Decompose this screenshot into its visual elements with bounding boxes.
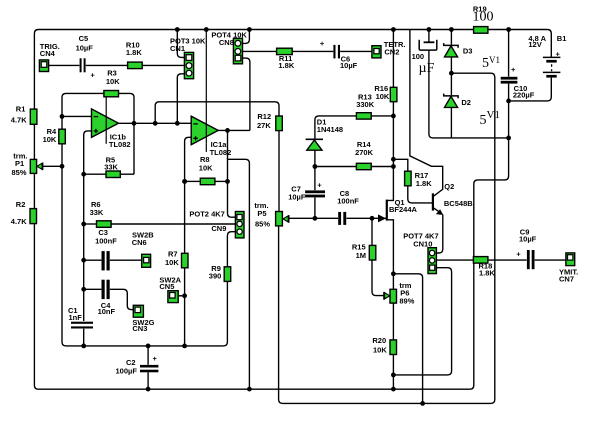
svg-text:D3: D3 bbox=[463, 47, 473, 56]
svg-text:1nF: 1nF bbox=[69, 313, 83, 322]
resistor R14 bbox=[355, 140, 374, 170]
svg-text:390: 390 bbox=[209, 271, 222, 280]
svg-text:CN9: CN9 bbox=[211, 224, 226, 233]
connector SW2G CN3 bbox=[132, 305, 154, 333]
svg-text:33K: 33K bbox=[104, 163, 118, 172]
wire R12 bottom down to P5 bbox=[278, 131, 280, 212]
junction C2 top / inner bottom wire bbox=[146, 344, 151, 349]
wire trig row CN4 to C5 bbox=[49, 64, 80, 66]
junction rail D3 bbox=[449, 27, 454, 32]
wire 100uF bottom lead to zener return line bbox=[429, 51, 509, 138]
wire battery top lead from rail bbox=[547, 30, 551, 58]
svg-text:10K: 10K bbox=[106, 77, 120, 86]
svg-text:100nF: 100nF bbox=[337, 197, 359, 206]
wire R6 left bbox=[84, 223, 97, 225]
wire rail to POT3 square pin bbox=[177, 30, 184, 58]
wire POT4 square pin down to IC1a output bbox=[243, 58, 250, 130]
resistor R15 bbox=[352, 243, 376, 261]
junction R20 / POT7 line bbox=[391, 373, 396, 378]
svg-text:+: + bbox=[317, 180, 322, 189]
battery B1 bbox=[528, 34, 566, 77]
junction C4 left bbox=[81, 287, 86, 292]
svg-text:10µF: 10µF bbox=[340, 61, 358, 70]
svg-text:CN1: CN1 bbox=[170, 44, 185, 53]
wire R13 right to column bbox=[371, 115, 393, 117]
wire Q1 source down through P6 bbox=[387, 220, 394, 289]
svg-text:CN4: CN4 bbox=[40, 49, 56, 58]
capacitor C7 10uF bbox=[288, 180, 325, 201]
zener diode D3 5V1 bbox=[444, 30, 473, 57]
wire C7 bottom to wiper line bbox=[314, 198, 316, 219]
junction R17 tap bbox=[391, 157, 396, 162]
svg-text:85%: 85% bbox=[255, 219, 270, 228]
resistor R6 bbox=[90, 200, 112, 228]
wire source branch right and down to bottom loop bbox=[393, 274, 422, 404]
wire C8 to Q1 gate bbox=[346, 217, 386, 219]
svg-text:µF: µF bbox=[419, 61, 435, 76]
svg-text:1.8K: 1.8K bbox=[278, 61, 294, 70]
svg-text:10µF: 10µF bbox=[519, 235, 537, 244]
resistor R19 bbox=[473, 5, 494, 34]
junction branch on bottom loop bbox=[420, 401, 425, 406]
wire R13 left down to D1 bbox=[315, 116, 357, 139]
svg-text:CN2: CN2 bbox=[384, 48, 399, 57]
wire P5 wiper to C8 bbox=[288, 217, 338, 219]
connector POT4 CN8 bbox=[211, 30, 247, 64]
junction R15 tap bbox=[370, 216, 375, 221]
wire R3 left loop down to inverting input bbox=[62, 93, 104, 116]
connector SW2B CN6 bbox=[132, 230, 155, 267]
svg-text:P5: P5 bbox=[257, 209, 266, 218]
svg-text:10µF: 10µF bbox=[288, 193, 306, 202]
wire R11 to C6 bbox=[292, 50, 333, 52]
svg-text:+: + bbox=[320, 39, 325, 48]
wire C2 bottom to ground rail bbox=[147, 372, 149, 389]
wire CN9 bottom pin down through R9 bbox=[227, 232, 235, 267]
connector POT7 CN10 bbox=[403, 232, 438, 274]
wire IC1b output to IC1a inverting input bbox=[119, 122, 192, 124]
capacitor 100uF electrolytic at rail bbox=[412, 30, 437, 77]
resistor R12 bbox=[257, 112, 282, 131]
svg-text:D2: D2 bbox=[461, 98, 471, 107]
svg-text:10K: 10K bbox=[376, 92, 390, 101]
svg-text:C5: C5 bbox=[79, 34, 89, 43]
junction R6 left bbox=[81, 222, 86, 227]
wire output feedback column down to R8 and POT2 square pin bbox=[228, 130, 236, 217]
junction output/R3 feedback bbox=[132, 121, 137, 126]
wire C6 to CN2 bbox=[340, 50, 372, 52]
wire R4 top lead bbox=[61, 116, 63, 129]
diode D1 1N4148 bbox=[306, 118, 343, 151]
svg-text:4.7K: 4.7K bbox=[11, 217, 27, 226]
wire C10 top lead bbox=[508, 30, 510, 77]
connector POT2 CN9 bbox=[189, 209, 244, 238]
transistor Q1 BF244A bbox=[378, 198, 418, 222]
capacitor C3 100nF bbox=[95, 228, 117, 271]
wire R10 to POT3 middle pin bbox=[142, 64, 184, 66]
svg-text:TL082: TL082 bbox=[109, 140, 131, 149]
svg-text:10K: 10K bbox=[199, 163, 213, 172]
svg-text:CN10: CN10 bbox=[413, 239, 432, 248]
junction R7 top / R8 bbox=[182, 179, 187, 184]
wire SW2A to R7 column bbox=[178, 295, 184, 297]
junction R3/R4/input bbox=[60, 114, 65, 119]
svg-text:100: 100 bbox=[473, 10, 494, 25]
wire R17 top lead from column bbox=[393, 159, 407, 171]
svg-text:+: + bbox=[90, 71, 95, 80]
wire D3 to D2 bbox=[450, 57, 452, 95]
svg-text:CN7: CN7 bbox=[559, 275, 574, 284]
resistor R8 bbox=[199, 155, 215, 185]
junction C1 bottom bbox=[81, 344, 86, 349]
wire IC1b noninverting input down to R5 bbox=[84, 131, 92, 321]
svg-text:10nF: 10nF bbox=[98, 307, 116, 316]
wire POT7 middle pin to R18 bbox=[437, 259, 474, 261]
svg-text:89%: 89% bbox=[399, 297, 414, 306]
svg-text:12V: 12V bbox=[528, 40, 541, 49]
connector SW2A CN5 bbox=[159, 276, 181, 303]
svg-text:B1: B1 bbox=[557, 34, 567, 43]
wire R20 bottom to ground rail bbox=[392, 355, 394, 390]
junction rail 100uF bbox=[427, 27, 432, 32]
wire C3 right to SW2B bbox=[110, 259, 142, 261]
junction D1/R14 bbox=[313, 164, 318, 169]
resistor R13 bbox=[356, 92, 375, 119]
resistor R3 bbox=[104, 69, 120, 97]
junction C2 / ground rail bbox=[146, 387, 151, 392]
resistor R20 bbox=[372, 336, 396, 354]
junction output/R12 loop bbox=[153, 121, 158, 126]
wire P1 wiper to R4 column bbox=[43, 165, 62, 167]
wire R4 bottom through P1 node down to inner bottom wire bbox=[62, 144, 223, 346]
svg-text:100µF: 100µF bbox=[116, 366, 138, 375]
op-amp IC1b TL082 bbox=[92, 97, 131, 149]
resistor R7 bbox=[165, 250, 188, 268]
resistor R17 bbox=[405, 171, 433, 188]
svg-text:10µF: 10µF bbox=[76, 44, 94, 53]
resistor R4 bbox=[43, 127, 66, 144]
svg-text:1.8K: 1.8K bbox=[416, 179, 432, 188]
connector POT3 CN1 bbox=[170, 37, 206, 79]
wire top supply rail with left rail and bottom ground rail bbox=[34, 30, 547, 390]
capacitor C9 10uF bbox=[516, 227, 536, 269]
svg-text:330K: 330K bbox=[356, 100, 375, 109]
wire R18 to C9 bbox=[488, 259, 527, 261]
junction rail POT4 bbox=[247, 27, 252, 32]
op-amp IC1a TL082 bbox=[191, 30, 231, 158]
wire battery bottom lead to C10 node bbox=[509, 78, 552, 101]
resistor R16 bbox=[374, 84, 397, 102]
junction output/POT3 bbox=[175, 121, 180, 126]
capacitor C1 1nF bbox=[68, 306, 93, 328]
wire rail down to Q2 collector bbox=[410, 30, 443, 197]
svg-text:10K: 10K bbox=[165, 258, 179, 267]
svg-text:POT2 4K7: POT2 4K7 bbox=[189, 209, 224, 218]
zener diode D2 5V1 bbox=[444, 94, 471, 108]
junction P1 wiper / R4 bbox=[60, 164, 65, 169]
wire D2 bottom lead to zener return line bbox=[450, 107, 452, 137]
trimmer P1 bbox=[12, 151, 43, 177]
capacitor C10 220uF bbox=[501, 65, 535, 100]
capacitor C2 100uF bbox=[116, 346, 159, 375]
wire rail down to R16 bbox=[392, 30, 394, 88]
wire loop from output node up over to R12 bbox=[155, 102, 279, 124]
wire C4 right down to SW2G bbox=[110, 289, 133, 309]
wire C4 left bbox=[84, 288, 102, 290]
wire IC1a noninverting input down to R7 bbox=[185, 137, 192, 253]
wire R5 left bbox=[84, 173, 106, 175]
connector TETR CN2 bbox=[372, 40, 406, 58]
resistor R18 bbox=[473, 257, 495, 278]
svg-text:CN3: CN3 bbox=[132, 324, 147, 333]
svg-text:+: + bbox=[153, 354, 158, 363]
svg-text:R2: R2 bbox=[16, 200, 26, 209]
svg-text:100nF: 100nF bbox=[95, 236, 117, 245]
svg-text:+: + bbox=[516, 249, 521, 258]
svg-text:BF244A: BF244A bbox=[389, 205, 418, 214]
wire POT3 bottom pin down to opamp line bbox=[177, 74, 184, 124]
resistor R2 bbox=[11, 200, 37, 226]
junction D3/D2 node bbox=[449, 71, 454, 76]
resistor R9 bbox=[209, 264, 231, 282]
junction C10 / zener return bbox=[506, 136, 511, 141]
junction branch on ground rail bbox=[247, 387, 252, 392]
svg-text:Q2: Q2 bbox=[444, 182, 454, 191]
wire P6 bottom to R20 bbox=[392, 303, 394, 340]
wire IC1a output to POT4 corner bbox=[218, 129, 250, 131]
wire R15 top lead bbox=[371, 218, 373, 245]
resistor R1 bbox=[11, 105, 37, 125]
wire C3 left bbox=[84, 259, 102, 261]
wire POT7 square pin down to R20 line bbox=[393, 268, 451, 375]
junction SW2A / R7 bbox=[182, 293, 187, 298]
svg-text:220µF: 220µF bbox=[513, 90, 535, 99]
wire R6 right to CN9 middle pin bbox=[111, 223, 235, 225]
junction rail R16 bbox=[391, 27, 396, 32]
junction R14 tap bbox=[391, 164, 396, 169]
junction Q1 source branch bbox=[391, 271, 396, 276]
svg-text:100: 100 bbox=[412, 52, 425, 61]
wire R14 left bbox=[315, 166, 357, 168]
capacitor C6 10uF bbox=[320, 39, 358, 70]
connector TRIG CN4 bbox=[39, 42, 59, 72]
wire D2/D3 node to outer loop right side down to bottom line bbox=[279, 73, 495, 403]
svg-text:BC548B: BC548B bbox=[444, 199, 473, 208]
resistor R10 bbox=[126, 41, 142, 69]
wire D1 bottom through R14 tap to C7 bbox=[314, 150, 316, 190]
svg-text:P1: P1 bbox=[15, 159, 24, 168]
wire C5 to R10 bbox=[86, 64, 128, 66]
wire R5 right to feedback column bbox=[120, 173, 134, 175]
svg-text:R1: R1 bbox=[16, 105, 26, 114]
wire R16 bottom through R13/R17/R14 taps to Q1 drain bbox=[387, 102, 393, 201]
svg-text:1.8K: 1.8K bbox=[479, 268, 495, 277]
svg-text:R20: R20 bbox=[372, 336, 386, 345]
wire POT4 middle pin to R11 bbox=[243, 50, 277, 52]
svg-text:CN5: CN5 bbox=[159, 282, 174, 291]
transistor Q2 BC548B bbox=[433, 182, 473, 215]
wire R8 left bbox=[185, 180, 201, 182]
junction C10 bottom / battery return bbox=[506, 99, 511, 104]
capacitor C5 10uF bbox=[76, 34, 96, 80]
junction R5 left bbox=[81, 172, 86, 177]
junction C3 left bbox=[81, 258, 86, 263]
svg-text:270K: 270K bbox=[355, 148, 374, 157]
resistor R5 bbox=[104, 155, 120, 177]
junction C7 / wiper line bbox=[313, 216, 318, 221]
svg-text:+: + bbox=[511, 65, 516, 74]
svg-text:1M: 1M bbox=[356, 251, 366, 260]
junction R7 column / inner bottom wire bbox=[182, 344, 187, 349]
svg-text:R12: R12 bbox=[257, 112, 271, 121]
wire R17 bottom to Q2 base bbox=[408, 186, 433, 203]
svg-text:1.8K: 1.8K bbox=[126, 48, 142, 57]
trimmer P6 bbox=[384, 281, 415, 306]
wire C9 to CN7 bbox=[535, 259, 566, 261]
svg-text:27K: 27K bbox=[257, 121, 271, 130]
wire R9 bottom to inner bottom wire bbox=[223, 281, 227, 346]
svg-text:10K: 10K bbox=[43, 135, 57, 144]
wire Q2 emitter down to POT7 top pin bbox=[437, 215, 443, 254]
svg-text:33K: 33K bbox=[90, 208, 104, 217]
svg-text:85%: 85% bbox=[12, 168, 27, 177]
wire C1 bottom lead bbox=[83, 329, 85, 346]
wire R7 bottom to inner bottom wire bbox=[184, 268, 186, 346]
wire R15 bottom to P6 wiper bbox=[372, 260, 384, 296]
wire R8 right bbox=[215, 180, 228, 182]
connector YMIT CN7 bbox=[559, 253, 578, 284]
resistor R11 bbox=[277, 48, 295, 70]
wire branch from feedback column to ground rail bbox=[228, 159, 250, 389]
junction rail C10 bbox=[506, 27, 511, 32]
junction rail IC1a supply bbox=[204, 27, 209, 32]
trimmer P5 bbox=[254, 201, 288, 228]
capacitor C4 10nF bbox=[98, 280, 116, 317]
svg-text:CN6: CN6 bbox=[132, 238, 147, 247]
wire R14 right bbox=[371, 166, 393, 168]
wire R3 right loop down to output bbox=[119, 93, 134, 174]
svg-text:CN8: CN8 bbox=[219, 38, 234, 47]
svg-text:4.7K: 4.7K bbox=[11, 115, 27, 124]
junction rail POT3 bbox=[175, 27, 180, 32]
junction R8 / R7 column bbox=[182, 179, 187, 184]
junction R13 tap bbox=[391, 114, 396, 119]
junction output / feedback R8 bbox=[225, 128, 230, 133]
wire rail to POT4 top pin bbox=[243, 30, 250, 44]
capacitor C8 100nF bbox=[337, 189, 359, 225]
svg-text:10K: 10K bbox=[373, 345, 387, 354]
wire IC1b inverting input bbox=[62, 115, 91, 117]
svg-text:+: + bbox=[556, 50, 561, 59]
junction R8 right bbox=[225, 179, 230, 184]
junction R20 / ground rail bbox=[391, 387, 396, 392]
svg-text:1N4148: 1N4148 bbox=[317, 125, 343, 134]
